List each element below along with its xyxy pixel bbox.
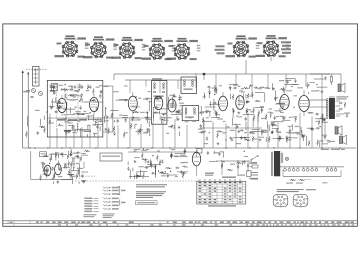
resistor bbox=[283, 86, 285, 92]
wire bbox=[292, 84, 299, 86]
wire bbox=[243, 114, 255, 116]
tube V10 electrodes bbox=[194, 150, 200, 176]
wire bbox=[137, 129, 139, 135]
capacitor bbox=[111, 114, 113, 118]
capacitor bbox=[73, 129, 77, 131]
ground lead wire bbox=[27, 72, 29, 148]
value label bbox=[72, 157, 76, 158]
node bbox=[59, 124, 60, 125]
node bbox=[293, 107, 294, 108]
wire bbox=[258, 136, 264, 138]
capacitor bbox=[177, 110, 179, 114]
wire bbox=[67, 151, 69, 158]
wire bbox=[238, 96, 240, 107]
value label bbox=[180, 162, 185, 163]
wire bbox=[170, 105, 176, 107]
value label bbox=[178, 97, 182, 98]
capacitor bbox=[136, 174, 138, 178]
resistor bbox=[184, 148, 186, 154]
node bbox=[105, 108, 106, 109]
resistor bbox=[317, 140, 319, 146]
capacitor bbox=[58, 105, 60, 109]
wire bbox=[50, 153, 52, 157]
node bbox=[136, 96, 137, 97]
detector lower parts bbox=[204, 136, 254, 145]
dial lamp bbox=[285, 157, 288, 160]
resistor bbox=[135, 175, 141, 177]
ground bbox=[70, 153, 73, 156]
wire bbox=[257, 116, 259, 148]
value label bbox=[170, 104, 176, 105]
capacitor bbox=[81, 174, 83, 178]
wire bbox=[159, 80, 161, 93]
resistor bbox=[80, 155, 82, 161]
value label bbox=[58, 176, 63, 177]
resistor bbox=[39, 126, 45, 128]
wire bbox=[73, 113, 80, 115]
capacitor bbox=[176, 111, 180, 113]
wire bbox=[272, 128, 279, 130]
node bbox=[146, 118, 147, 119]
ground bbox=[166, 175, 169, 178]
resistor bbox=[142, 159, 148, 161]
resistor bbox=[202, 117, 204, 123]
capacitor bbox=[170, 153, 172, 157]
value label bbox=[70, 100, 76, 101]
tube socket diagram V7 socket bbox=[256, 35, 290, 57]
value label bbox=[138, 129, 143, 130]
front-end shield box bbox=[47, 80, 103, 137]
wire bbox=[152, 122, 154, 148]
capacitor bbox=[81, 85, 83, 89]
wire bbox=[271, 121, 283, 123]
wire bbox=[179, 109, 182, 111]
wire bbox=[122, 116, 128, 118]
wire bbox=[146, 112, 148, 123]
value label bbox=[49, 159, 52, 160]
3rd IF coils bbox=[185, 108, 195, 115]
wire bbox=[83, 162, 85, 168]
value label bbox=[137, 119, 141, 120]
value label bbox=[251, 132, 254, 133]
value label bbox=[316, 90, 320, 91]
capacitor bbox=[271, 130, 273, 134]
wire bbox=[177, 171, 188, 173]
tube V10 rectifier envelope bbox=[192, 152, 200, 166]
resistor bbox=[308, 140, 310, 146]
resistor bbox=[150, 160, 152, 166]
wire bbox=[204, 93, 206, 99]
resistor bbox=[159, 172, 165, 174]
capacitor bbox=[146, 128, 150, 130]
resistor bbox=[93, 88, 95, 94]
capacitor bbox=[54, 111, 58, 113]
wire bbox=[221, 163, 223, 167]
loop antenna L1 bbox=[33, 67, 40, 87]
wire bbox=[89, 125, 91, 147]
capacitor bbox=[246, 101, 250, 103]
node bbox=[65, 84, 66, 85]
wire bbox=[152, 107, 154, 118]
capacitor bbox=[321, 119, 325, 121]
capacitor bbox=[322, 119, 326, 121]
wire bbox=[60, 154, 67, 156]
resistor bbox=[113, 126, 115, 132]
capacitor bbox=[244, 136, 246, 140]
wire bbox=[261, 107, 263, 113]
tube V12 envelope bbox=[55, 164, 62, 175]
tube V2 envelope bbox=[90, 97, 99, 111]
B+ bus wire bbox=[23, 147, 356, 149]
resistor bbox=[264, 87, 270, 89]
wire bbox=[202, 130, 207, 132]
resistor bbox=[253, 107, 255, 113]
label above 1st IF can bbox=[152, 78, 162, 79]
ground bbox=[282, 117, 285, 120]
resistor bbox=[64, 162, 66, 168]
resistor bbox=[67, 174, 73, 176]
wire bbox=[277, 122, 279, 148]
voltage chart table bbox=[197, 181, 246, 204]
value label bbox=[182, 166, 186, 167]
node bbox=[316, 84, 317, 85]
wire bbox=[116, 99, 126, 101]
capacitor bbox=[233, 109, 235, 113]
resistor bbox=[199, 132, 205, 134]
wire bbox=[150, 159, 152, 166]
notes paragraph 2 bbox=[136, 191, 166, 198]
label rows right of transformer bbox=[336, 96, 348, 99]
legend rows left column bbox=[84, 198, 98, 213]
value label bbox=[59, 169, 62, 170]
value label bbox=[179, 103, 184, 104]
tube V8 electrodes bbox=[281, 90, 288, 105]
wire bbox=[101, 90, 103, 92]
ground bbox=[272, 87, 275, 90]
resistor bbox=[280, 88, 286, 90]
capacitor bbox=[92, 99, 96, 101]
ground bbox=[274, 97, 277, 100]
volume control box bbox=[100, 153, 122, 161]
capacitor bbox=[324, 76, 326, 80]
legend arrow rows right column bbox=[103, 187, 119, 210]
wire bbox=[68, 124, 74, 126]
wire bbox=[105, 107, 107, 116]
capacitor bbox=[175, 110, 177, 114]
capacitor bbox=[117, 119, 119, 123]
wire bbox=[155, 166, 157, 177]
resistor bbox=[318, 119, 320, 125]
wire bbox=[244, 155, 248, 157]
value label bbox=[82, 181, 86, 182]
resistor bbox=[74, 90, 80, 92]
wire bbox=[77, 114, 85, 116]
capacitor bbox=[315, 113, 319, 115]
wire V9 plate to T2 bbox=[309, 100, 327, 107]
tube socket diagram V4 50C5 output socket bbox=[142, 38, 176, 60]
wire bbox=[87, 134, 89, 137]
capacitor bbox=[206, 110, 208, 114]
node bbox=[209, 93, 210, 94]
wire bbox=[223, 152, 225, 158]
resistor bbox=[159, 159, 161, 165]
value label bbox=[217, 118, 223, 119]
value label bbox=[261, 130, 267, 131]
wire bbox=[212, 122, 214, 148]
resistor bbox=[68, 169, 70, 175]
value label bbox=[173, 96, 176, 97]
wire bbox=[70, 94, 77, 96]
socket note text bbox=[277, 189, 304, 192]
wire bbox=[305, 74, 307, 86]
wire bbox=[78, 165, 80, 176]
capacitor bbox=[147, 129, 149, 133]
node bbox=[49, 163, 50, 164]
node bbox=[83, 114, 84, 115]
resistor bbox=[87, 84, 89, 90]
wire bbox=[175, 153, 186, 155]
wire bbox=[200, 106, 202, 116]
wire bbox=[261, 86, 264, 88]
tube V1 envelope bbox=[58, 98, 67, 112]
wire bbox=[243, 94, 245, 99]
2nd IF transformer can bbox=[181, 77, 197, 94]
wire bbox=[186, 125, 188, 148]
wire bbox=[139, 170, 141, 176]
capacitor bbox=[180, 170, 182, 174]
wire bbox=[282, 119, 291, 121]
value label bbox=[287, 137, 291, 138]
tube V6 electrodes bbox=[220, 92, 226, 106]
node bbox=[41, 127, 42, 128]
node bbox=[163, 114, 164, 115]
notes paragraph 1 bbox=[136, 184, 167, 187]
node bbox=[112, 113, 113, 114]
wire bbox=[229, 94, 231, 100]
ground bbox=[229, 137, 232, 140]
tuning capacitor C1A bbox=[26, 89, 36, 93]
value label bbox=[119, 115, 122, 116]
capacitor bbox=[81, 93, 83, 97]
wire bbox=[63, 167, 70, 169]
ground bbox=[147, 161, 150, 164]
value label bbox=[41, 153, 47, 154]
node bbox=[200, 112, 201, 113]
wire bbox=[277, 102, 285, 104]
resistor bbox=[205, 111, 211, 113]
resistor bbox=[243, 87, 249, 89]
resistor bbox=[68, 95, 74, 97]
value label bbox=[74, 107, 77, 108]
value label bbox=[96, 87, 100, 88]
wire bbox=[145, 159, 147, 164]
ground bbox=[184, 150, 187, 153]
3rd IF can label bbox=[185, 117, 194, 118]
legend note text bbox=[83, 214, 96, 217]
resistor bbox=[247, 93, 249, 99]
ground bbox=[236, 125, 239, 128]
wire bbox=[203, 120, 205, 148]
wire bbox=[139, 171, 147, 173]
value label bbox=[52, 153, 57, 154]
resistor bbox=[232, 94, 234, 100]
resistor bbox=[216, 131, 222, 133]
capacitor bbox=[79, 84, 81, 88]
wire bbox=[45, 167, 47, 178]
wire bbox=[57, 154, 59, 158]
ground bbox=[134, 160, 137, 163]
wire bbox=[270, 112, 272, 118]
wire bottom strip line 1 bbox=[3, 220, 358, 222]
wire bbox=[129, 129, 131, 147]
value label bbox=[259, 87, 265, 88]
wire bbox=[235, 74, 237, 85]
resistor bbox=[130, 123, 132, 129]
node bbox=[80, 99, 81, 100]
wire bbox=[153, 114, 155, 121]
capacitor bbox=[156, 98, 160, 100]
node bbox=[90, 112, 91, 113]
resistor bbox=[26, 131, 28, 137]
wire bbox=[159, 111, 161, 114]
wire bbox=[57, 103, 64, 105]
value label bbox=[163, 173, 168, 174]
wire bbox=[67, 155, 69, 159]
wire bbox=[97, 117, 99, 147]
value label bbox=[307, 128, 313, 129]
wire bbox=[64, 129, 72, 131]
value label bbox=[276, 116, 279, 117]
wire bbox=[279, 108, 281, 112]
wire bbox=[301, 130, 303, 136]
node bbox=[114, 121, 115, 122]
node bbox=[244, 151, 245, 152]
wire bbox=[49, 114, 51, 148]
node bbox=[291, 86, 292, 87]
node bbox=[280, 132, 281, 133]
wire bbox=[285, 74, 287, 88]
boxed warning note bbox=[136, 201, 158, 205]
value label bbox=[253, 138, 257, 139]
value label bbox=[169, 95, 175, 96]
capacitor bbox=[161, 160, 163, 164]
wire bbox=[73, 125, 75, 148]
value label bbox=[241, 88, 244, 89]
capacitor bbox=[246, 100, 248, 104]
value label bbox=[203, 96, 206, 97]
padder capacitor C2 bbox=[31, 97, 34, 98]
wire bbox=[160, 108, 168, 110]
wire bbox=[52, 99, 54, 107]
tube socket diagram V5 35W4 rectifier socket bbox=[167, 38, 201, 60]
value label bbox=[55, 152, 60, 153]
wire bbox=[132, 168, 134, 172]
ground bbox=[69, 153, 72, 156]
tiny label top right bbox=[322, 182, 327, 183]
node bbox=[158, 171, 159, 172]
resistor bbox=[53, 173, 55, 179]
wire bbox=[53, 86, 55, 94]
capacitor bbox=[207, 86, 211, 88]
capacitor bbox=[76, 152, 80, 154]
node bbox=[154, 112, 155, 113]
node bbox=[320, 126, 321, 127]
tube V11 envelope bbox=[44, 165, 51, 176]
value label bbox=[57, 163, 60, 164]
dashed AVC vertical bbox=[78, 158, 80, 179]
value label bbox=[142, 150, 147, 151]
resistor bbox=[216, 87, 218, 93]
socket note right label bbox=[306, 189, 316, 190]
wire bbox=[210, 101, 212, 106]
resistor bbox=[171, 153, 173, 159]
small label right of table bbox=[251, 178, 258, 179]
wire bbox=[267, 74, 269, 88]
value label bbox=[146, 149, 150, 150]
capacitor network right of transformer bbox=[336, 102, 350, 118]
tuning link dashed wires bbox=[57, 84, 79, 130]
1st IF can label bbox=[154, 96, 164, 100]
wire bbox=[285, 79, 291, 81]
connector on top bus bbox=[203, 73, 205, 80]
tube socket diagram V3 12AV6 detector socket bbox=[112, 37, 146, 59]
wire bbox=[95, 101, 103, 103]
wire bbox=[179, 131, 181, 136]
phase inverter wires bbox=[216, 161, 252, 175]
capacitor bbox=[74, 85, 76, 89]
node bbox=[209, 132, 210, 133]
value label bbox=[70, 176, 76, 177]
voltage chart title bbox=[222, 177, 236, 178]
capacitor bbox=[271, 123, 273, 127]
capacitor bbox=[99, 94, 101, 98]
value label bbox=[183, 162, 188, 163]
wire bbox=[133, 175, 135, 179]
wire bbox=[203, 120, 212, 122]
tube V4 electrodes bbox=[156, 101, 161, 105]
wire bbox=[175, 156, 188, 158]
wire bbox=[215, 74, 217, 94]
wire bbox=[62, 152, 64, 157]
resistor bbox=[214, 87, 216, 93]
wire bbox=[27, 116, 29, 126]
3rd IF transformer can bbox=[182, 105, 199, 120]
capacitor bbox=[310, 128, 314, 130]
wire bbox=[264, 92, 266, 102]
wire bbox=[77, 113, 90, 115]
capacitor bbox=[274, 116, 276, 120]
capacitor bbox=[44, 169, 48, 171]
value label bbox=[99, 85, 102, 86]
wire bbox=[215, 114, 220, 116]
value label bbox=[175, 176, 178, 177]
speaker SP3 bbox=[340, 135, 347, 144]
wire bbox=[64, 88, 66, 92]
wire bbox=[229, 83, 238, 85]
ground bbox=[229, 86, 232, 89]
wire bbox=[104, 120, 109, 122]
value label bbox=[146, 119, 152, 120]
wire bbox=[71, 95, 81, 97]
capacitor bbox=[68, 130, 70, 134]
resistor bbox=[254, 100, 260, 102]
tube socket diagram V2 12BA6 IF amplifier socket bbox=[83, 36, 117, 58]
capacitor bbox=[77, 155, 79, 159]
lower horizontal wire bbox=[128, 151, 196, 153]
capacitor bbox=[207, 151, 209, 155]
node bbox=[79, 101, 80, 102]
wire bbox=[203, 123, 205, 128]
